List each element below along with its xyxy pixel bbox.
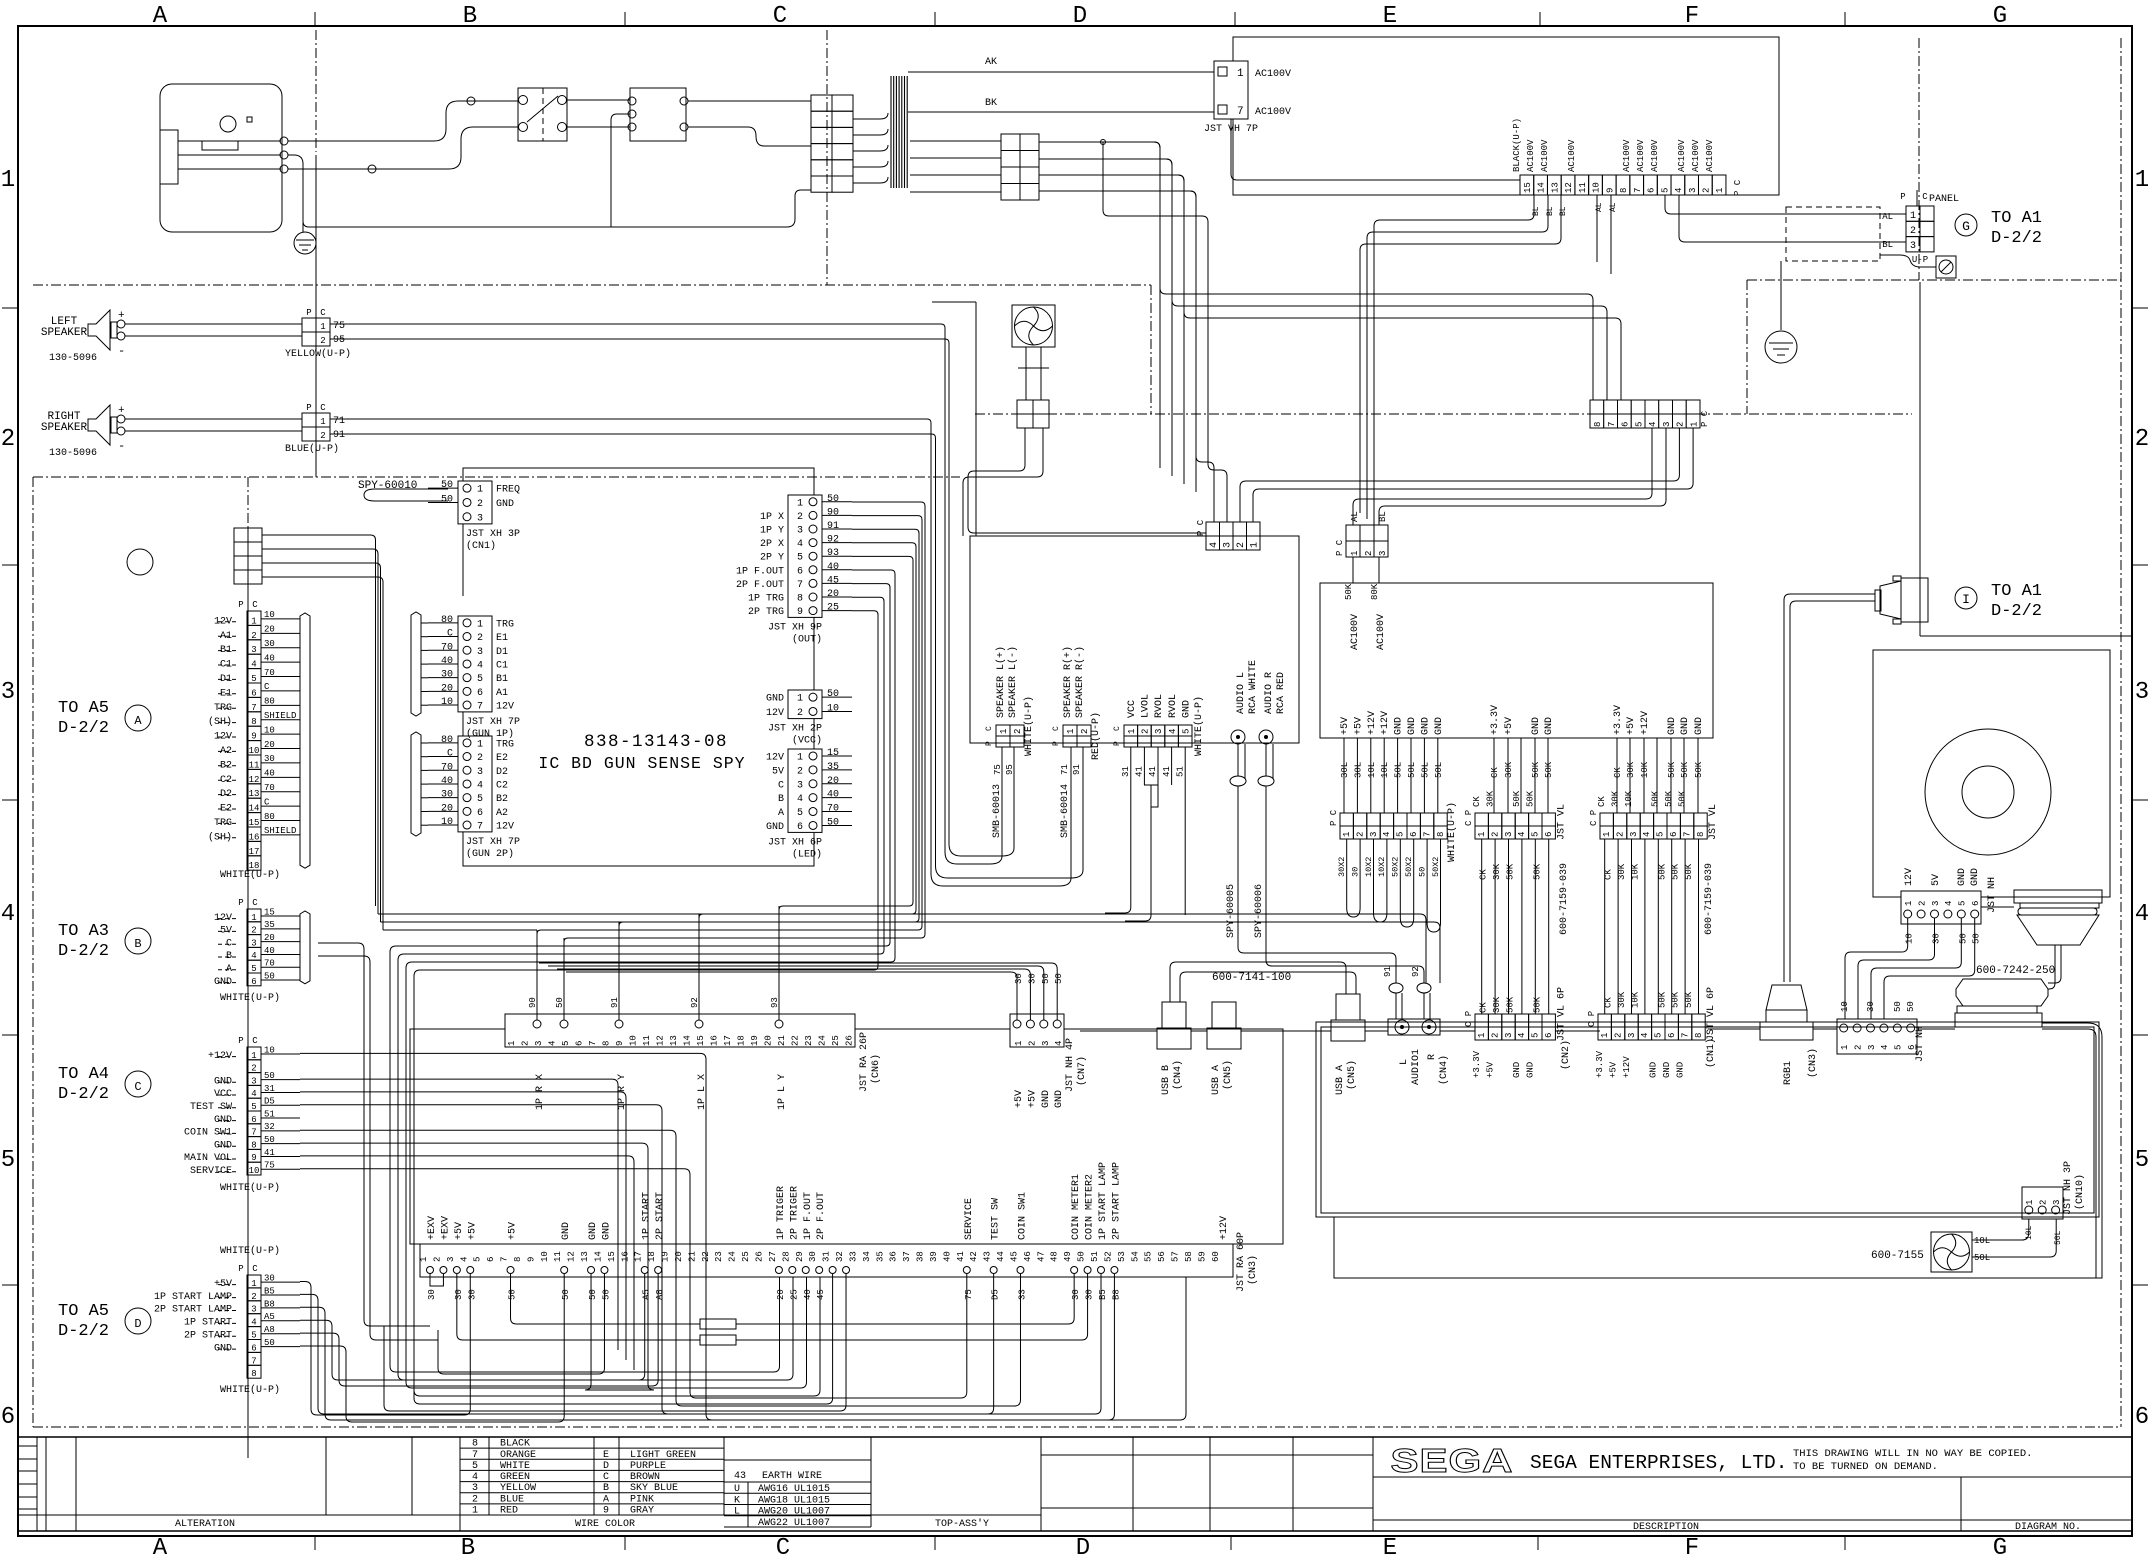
svg-text:8: 8 (1619, 188, 1629, 193)
svg-text:50K: 50K (1526, 790, 1536, 807)
svg-text:80: 80 (441, 735, 453, 746)
svg-text:7: 7 (1607, 422, 1617, 427)
svg-text:3: 3 (477, 767, 483, 778)
terminal block TB2 (1001, 134, 1020, 151)
svg-text:B2: B2 (496, 794, 508, 805)
B wires to bottom (318, 943, 430, 1326)
svg-text:E2: E2 (496, 753, 508, 764)
svg-text:1P TRG: 1P TRG (748, 594, 784, 605)
title mid columns (1132, 1437, 1134, 1531)
svg-text:37: 37 (902, 1251, 912, 1262)
svg-text:GND: GND (1662, 1062, 1672, 1078)
bus wires lower (1080, 1030, 1157, 1032)
svg-text:COIN METER1: COIN METER1 (1071, 1174, 1082, 1240)
junction node inlet (368, 165, 376, 173)
section boundary horizontal right (1747, 279, 2121, 281)
svg-text:2: 2 (251, 1064, 256, 1074)
svg-text:BL: BL (1378, 511, 1388, 522)
svg-text:8: 8 (1694, 1033, 1704, 1038)
inline connector 8P (1590, 400, 1604, 414)
svg-text:JST NH: JST NH (1987, 877, 1998, 913)
CN3 pins 1-2 jumper (430, 1274, 443, 1287)
svg-text:1: 1 (1602, 832, 1612, 837)
CN3 GND14 wire down (438, 1274, 604, 1375)
svg-text:3: 3 (534, 1041, 544, 1046)
connector JST NH 6 bottom (1837, 1019, 1917, 1054)
svg-text:P: P (238, 1036, 243, 1046)
svg-text:1: 1 (797, 498, 803, 509)
svg-text:C P: C P (1589, 810, 1599, 826)
wires TB2 right then down (1039, 142, 1160, 468)
svg-text:5: 5 (1660, 188, 1670, 193)
svg-text:RVOL: RVOL (1168, 694, 1179, 718)
svg-text:(CN7): (CN7) (1076, 1056, 1088, 1086)
svg-text:COIN METER2: COIN METER2 (1085, 1174, 1096, 1240)
svg-text:600-7242-250: 600-7242-250 (1976, 965, 2055, 977)
svg-text:2: 2 (1364, 551, 1374, 556)
svg-text:2: 2 (1613, 1033, 1623, 1038)
svg-text:70: 70 (441, 642, 453, 653)
section boundary vertical cable A (247, 477, 249, 528)
svg-text:SPY-60005: SPY-60005 (1226, 884, 1237, 938)
wires PSU strip down AL (1665, 195, 1906, 214)
section boundary vertical right of PSU (1918, 38, 1920, 280)
svg-text:GND: GND (1970, 868, 1981, 886)
connector LED JST XH 6P (788, 749, 822, 832)
svg-text:50: 50 (1958, 933, 1968, 944)
svg-text:6: 6 (486, 1257, 496, 1262)
svg-text:5: 5 (251, 964, 256, 974)
svg-text:F: F (1685, 1535, 1699, 1556)
svg-text:3: 3 (797, 526, 803, 537)
svg-text:-: - (118, 439, 125, 453)
svg-text:92: 92 (827, 535, 839, 546)
svg-text:2: 2 (1917, 901, 1927, 906)
bus line 930 (383, 929, 537, 931)
svg-text:11: 11 (553, 1251, 563, 1262)
svg-text:1: 1 (1014, 1041, 1024, 1046)
svg-text:50: 50 (264, 1338, 275, 1348)
C wire GND50 (300, 1143, 654, 1390)
svg-text:17: 17 (723, 1035, 733, 1046)
svg-text:1P Y: 1P Y (760, 526, 784, 537)
svg-text:SPEAKER L(-): SPEAKER L(-) (1007, 646, 1019, 718)
svg-text:50: 50 (1041, 973, 1051, 984)
svg-text:3: 3 (1688, 188, 1698, 193)
svg-text:GND: GND (1675, 1062, 1685, 1078)
svg-text:4: 4 (459, 1257, 469, 1262)
svg-text:D-2/2: D-2/2 (58, 942, 109, 961)
dashed cable rect (1786, 207, 1880, 261)
svg-text:C: C (320, 403, 326, 413)
svg-text:D-2/2: D-2/2 (58, 1085, 109, 1104)
inlet wires (178, 140, 281, 142)
svg-text:50K: 50K (1684, 991, 1694, 1008)
svg-text:130-5096: 130-5096 (49, 353, 97, 364)
svg-text:1: 1 (1, 167, 15, 194)
junction dot (1101, 140, 1106, 145)
svg-text:2: 2 (1027, 1041, 1037, 1046)
svg-text:BK: BK (985, 98, 997, 109)
svg-text:D-2/2: D-2/2 (1991, 602, 2042, 621)
svg-text:38: 38 (916, 1251, 926, 1262)
main board inner (1321, 1027, 2094, 1213)
svg-text:WHITE(U-P): WHITE(U-P) (220, 1245, 280, 1257)
svg-text:1: 1 (1237, 68, 1244, 80)
fan duct (1025, 347, 1027, 400)
svg-text:6: 6 (1667, 1033, 1677, 1038)
svg-text:1P START LAMP: 1P START LAMP (1098, 1162, 1109, 1240)
C wire GND3 (300, 1079, 618, 1350)
svg-text:JST VL: JST VL (1556, 804, 1567, 840)
section boundary vertical A top (315, 30, 317, 152)
svg-text:(CN4): (CN4) (1438, 1055, 1450, 1085)
svg-text:7: 7 (1422, 832, 1432, 837)
svg-text:SERVICE: SERVICE (964, 1198, 975, 1240)
svg-text:3: 3 (1, 679, 15, 706)
fan wires down (968, 428, 1206, 533)
svg-text:JST RA 26P: JST RA 26P (859, 1032, 870, 1092)
svg-text:AL: AL (1595, 202, 1604, 212)
svg-text:SPEAKER R(+): SPEAKER R(+) (1062, 646, 1074, 718)
svg-text:BLACK(U-P): BLACK(U-P) (1512, 118, 1522, 172)
svg-text:2: 2 (1355, 832, 1365, 837)
svg-text:50K: 50K (1657, 863, 1667, 880)
svg-text:JST NH 4P: JST NH 4P (1065, 1038, 1076, 1092)
connector SPEAKER L (996, 725, 1010, 736)
svg-text:50L: 50L (1420, 762, 1430, 778)
svg-text:50K: 50K (1532, 996, 1542, 1013)
svg-text:12V: 12V (214, 913, 232, 924)
connector WHITE 8P (1340, 813, 1353, 826)
svg-text:2: 2 (1080, 729, 1090, 734)
title WIRE COLOR label (460, 1514, 1041, 1516)
svg-text:7: 7 (251, 703, 256, 713)
svg-text:20: 20 (264, 740, 275, 750)
svg-text:+3.3V: +3.3V (1613, 705, 1624, 735)
svg-text:2: 2 (1910, 226, 1916, 237)
svg-text:AC100V: AC100V (1540, 139, 1550, 172)
svg-text:1: 1 (251, 616, 256, 626)
svg-text:4: 4 (1880, 1045, 1890, 1050)
bus to CN7 wires (566, 972, 1017, 988)
svg-text:7: 7 (1682, 832, 1692, 837)
svg-text:D5: D5 (264, 1097, 275, 1107)
connector P C AL BL (1346, 525, 1360, 541)
ruler ticks top (314, 12, 316, 26)
svg-text:2P TRIGER: 2P TRIGER (789, 1186, 800, 1240)
main video bus wire (1708, 1028, 1760, 1030)
AC inlet box (160, 84, 282, 232)
svg-text:1: 1 (1477, 1033, 1487, 1038)
D wire B5 (300, 1274, 1101, 1414)
wires 600-7159-039 mid (1481, 839, 1483, 1014)
svg-text:600-7155: 600-7155 (1871, 1250, 1924, 1262)
svg-text:5: 5 (1656, 832, 1666, 837)
svg-text:1P X: 1P X (760, 512, 784, 523)
svg-text:50: 50 (441, 494, 453, 505)
connector GUN2P JST XH 7P (458, 736, 492, 832)
svg-text:18: 18 (647, 1251, 657, 1262)
fuse wire 2 (457, 1274, 700, 1340)
svg-text:50: 50 (1417, 867, 1427, 877)
RCA cable ellipses (1230, 776, 1246, 786)
svg-text:70: 70 (264, 959, 275, 969)
svg-text:GND: GND (766, 822, 784, 833)
section boundary horizontal upper (33, 284, 1151, 286)
svg-text:THIS DRAWING WILL IN NO WAY BE: THIS DRAWING WILL IN NO WAY BE COPIED. (1793, 1448, 2032, 1460)
connector 2x4 block (234, 528, 248, 542)
svg-text:CK: CK (1604, 997, 1614, 1008)
svg-text:C: C (447, 749, 453, 760)
svg-text:21: 21 (777, 1035, 787, 1046)
svg-text:BL: BL (1882, 240, 1893, 250)
svg-text:B8: B8 (264, 1299, 275, 1309)
svg-text:31: 31 (264, 1084, 275, 1094)
svg-text:+5V: +5V (1608, 1061, 1618, 1078)
svg-text:TOP-ASS'Y: TOP-ASS'Y (935, 1518, 989, 1530)
svg-text:PANEL: PANEL (1929, 194, 1959, 205)
svg-text:1: 1 (251, 1051, 256, 1061)
svg-text:7: 7 (500, 1257, 510, 1262)
svg-text:10: 10 (827, 703, 839, 714)
svg-text:COIN SW1: COIN SW1 (184, 1128, 232, 1139)
svg-text:AC100V: AC100V (1650, 139, 1660, 172)
svg-text:30K: 30K (1617, 991, 1627, 1008)
svg-text:55: 55 (1144, 1251, 1154, 1262)
svg-text:50K: 50K (1657, 991, 1667, 1008)
svg-text:3: 3 (477, 647, 483, 658)
svg-text:1: 1 (477, 485, 483, 496)
svg-text:D-2/2: D-2/2 (1991, 229, 2042, 248)
svg-text:12: 12 (656, 1035, 666, 1046)
svg-text:30K: 30K (1504, 761, 1514, 778)
svg-text:+12V: +12V (1622, 1056, 1632, 1078)
svg-text:7: 7 (588, 1041, 598, 1046)
svg-text:CK: CK (1479, 869, 1489, 880)
svg-text:SPY-60006: SPY-60006 (1254, 884, 1265, 938)
wire inlet to switch top (288, 101, 518, 141)
svg-text:12V: 12V (766, 752, 784, 763)
svg-text:5: 5 (251, 1102, 256, 1112)
connector C P 4321 (1206, 522, 1220, 536)
svg-text:10: 10 (540, 1251, 550, 1262)
svg-text:3: 3 (251, 645, 256, 655)
svg-text:D2: D2 (496, 767, 508, 778)
svg-text:12V: 12V (1904, 868, 1915, 886)
svg-text:30K: 30K (1485, 790, 1495, 807)
svg-text:30L: 30L (1340, 762, 1350, 778)
svg-text:30: 30 (1027, 973, 1037, 984)
svg-text:+5V: +5V (1340, 717, 1351, 735)
svg-text:5: 5 (251, 674, 256, 684)
svg-text:50: 50 (1077, 1251, 1087, 1262)
svg-text:JST VL: JST VL (1708, 804, 1719, 840)
svg-text:70: 70 (827, 804, 839, 815)
main switch SW1 (518, 88, 567, 141)
svg-text:CK: CK (1479, 1002, 1489, 1013)
svg-text:30: 30 (454, 1289, 464, 1300)
svg-text:GND: GND (214, 1140, 232, 1151)
wire fan-section left (975, 302, 977, 536)
svg-text:11: 11 (642, 1035, 652, 1046)
terminal block TB1 (811, 95, 832, 111)
svg-text:80: 80 (441, 615, 453, 626)
svg-text:3: 3 (251, 1076, 256, 1086)
svg-text:GND: GND (1420, 717, 1431, 735)
svg-text:42: 42 (969, 1251, 979, 1262)
vol wire bracket (1144, 785, 1158, 915)
svg-text:40: 40 (827, 790, 839, 801)
svg-text:2: 2 (1490, 832, 1500, 837)
svg-text:A: A (134, 714, 142, 728)
wire AK (908, 71, 1214, 73)
svg-text:40: 40 (827, 562, 839, 573)
svg-text:AC100V: AC100V (1255, 107, 1291, 118)
svg-text:TEST SW: TEST SW (991, 1198, 1002, 1240)
svg-text:20: 20 (264, 933, 275, 943)
svg-text:3: 3 (1629, 832, 1639, 837)
svg-text:600-7159-039: 600-7159-039 (1704, 863, 1715, 935)
svg-text:B1: B1 (496, 674, 508, 685)
svg-text:10: 10 (249, 746, 260, 756)
svg-text:50K: 50K (1531, 761, 1541, 778)
connector JST VH 7P (1214, 61, 1248, 119)
svg-text:3: 3 (1378, 551, 1388, 556)
svg-text:30: 30 (264, 754, 275, 764)
svg-text:5: 5 (477, 794, 483, 805)
svg-text:+5V: +5V (1626, 717, 1637, 735)
svg-text:11: 11 (1578, 182, 1588, 193)
svg-text:4: 4 (1382, 832, 1392, 837)
svg-text:1P F.OUT: 1P F.OUT (803, 1192, 814, 1240)
wires RIGHT speaker (125, 418, 302, 420)
svg-text:+5V: +5V (508, 1222, 519, 1240)
svg-text:10: 10 (249, 1166, 260, 1176)
svg-text:9: 9 (1605, 188, 1615, 193)
svg-text:35: 35 (827, 762, 839, 773)
connector CN1 JST XH 3P (458, 481, 492, 524)
svg-text:U-P: U-P (1912, 255, 1928, 265)
svg-text:(GUN 1P): (GUN 1P) (466, 728, 514, 740)
svg-text:+5V: +5V (454, 1222, 465, 1240)
svg-text:+3.3V: +3.3V (1490, 705, 1501, 735)
svg-text:47: 47 (1036, 1251, 1046, 1262)
svg-text:USB A: USB A (1211, 1065, 1222, 1095)
svg-text:6: 6 (251, 688, 256, 698)
svg-text:2: 2 (521, 1041, 531, 1046)
svg-text:1: 1 (1904, 901, 1914, 906)
svg-text:838-13143-08: 838-13143-08 (584, 732, 728, 752)
svg-text:35: 35 (264, 920, 275, 930)
svg-text:3: 3 (2135, 679, 2149, 706)
svg-text:G: G (1993, 1535, 2007, 1556)
svg-text:8: 8 (1696, 832, 1706, 837)
svg-text:(CN2): (CN2) (1560, 1040, 1572, 1070)
svg-text:6: 6 (1544, 1033, 1554, 1038)
svg-text:33: 33 (848, 1251, 858, 1262)
svg-text:GND: GND (766, 694, 784, 705)
power supply unit PSU (1233, 37, 1779, 195)
svg-text:1: 1 (2135, 167, 2149, 194)
ground wire from dashed rect (1780, 261, 1782, 330)
svg-text:10: 10 (264, 725, 275, 735)
svg-text:EARTH WIRE: EARTH WIRE (762, 1471, 822, 1482)
svg-text:30: 30 (441, 670, 453, 681)
RCA cable 92 (1266, 786, 1424, 983)
svg-text:1: 1 (1715, 188, 1725, 193)
svg-text:4: 4 (477, 660, 483, 671)
svg-text:10: 10 (629, 1035, 639, 1046)
svg-text:50: 50 (1054, 973, 1064, 984)
svg-text:43: 43 (734, 1471, 746, 1482)
svg-text:40: 40 (803, 1289, 813, 1300)
svg-text:1: 1 (1600, 1033, 1610, 1038)
svg-text:MAIN VOL: MAIN VOL (184, 1153, 232, 1164)
svg-text:12V: 12V (214, 616, 232, 627)
svg-text:10X2: 10X2 (1364, 857, 1374, 877)
svg-text:13: 13 (1550, 182, 1560, 193)
svg-text:VCC: VCC (214, 1089, 232, 1100)
connector JST NH 6P monitor (1901, 891, 1981, 924)
speaker LEFT SPEAKER (88, 310, 110, 350)
svg-text:50: 50 (264, 1135, 275, 1145)
D wire A8 (300, 1274, 658, 1386)
svg-text:3: 3 (1931, 901, 1941, 906)
svg-text:44: 44 (996, 1251, 1006, 1262)
svg-text:6: 6 (251, 977, 256, 987)
svg-text:D1: D1 (496, 647, 508, 658)
svg-text:6: 6 (1971, 901, 1981, 906)
svg-text:+12V: +12V (1367, 711, 1378, 735)
svg-text:71: 71 (333, 416, 345, 427)
svg-text:30K: 30K (1617, 863, 1627, 880)
svg-text:7: 7 (251, 1128, 256, 1138)
svg-text:25: 25 (741, 1251, 751, 1262)
svg-text:SPEAKER: SPEAKER (41, 422, 88, 434)
svg-text:8: 8 (513, 1257, 523, 1262)
svg-text:30: 30 (264, 1273, 275, 1283)
RCA jack L (1231, 730, 1245, 744)
svg-text:4: 4 (548, 1041, 558, 1046)
svg-text:TO A4: TO A4 (58, 1065, 109, 1084)
svg-text:50: 50 (827, 817, 839, 828)
svg-text:B: B (134, 937, 141, 951)
svg-text:E: E (603, 1450, 609, 1461)
svg-text:50X2: 50X2 (1431, 857, 1441, 877)
svg-text:70: 70 (264, 783, 275, 793)
ruler ticks left (2, 307, 18, 309)
svg-text:2: 2 (797, 766, 803, 777)
inline connector lower wires (1253, 428, 1693, 522)
section boundary horizontal mid (975, 413, 1912, 415)
svg-text:D: D (1076, 1535, 1090, 1556)
svg-text:6: 6 (1669, 832, 1679, 837)
svg-text:B: B (461, 1535, 475, 1556)
svg-text:1: 1 (1689, 422, 1699, 427)
svg-text:17: 17 (249, 847, 260, 857)
svg-text:1P START: 1P START (184, 1318, 232, 1329)
svg-text:50: 50 (561, 1289, 571, 1300)
svg-text:(CN6): (CN6) (870, 1054, 882, 1084)
svg-text:20: 20 (441, 803, 453, 814)
svg-text:49: 49 (1063, 1251, 1073, 1262)
svg-text:C: C (603, 1472, 609, 1483)
svg-text:4: 4 (1517, 1033, 1527, 1038)
section boundary vertical B-C top (826, 30, 828, 285)
svg-text:3: 3 (2052, 1200, 2062, 1205)
AC distribution board (1320, 583, 1713, 738)
